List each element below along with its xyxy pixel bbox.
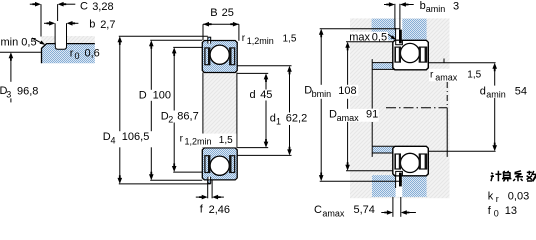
svg-text:D: D: [139, 89, 147, 101]
svg-text:86,7: 86,7: [177, 110, 198, 122]
svg-text:k: k: [488, 190, 494, 202]
svg-text:1,5: 1,5: [283, 34, 297, 45]
svg-text:r: r: [70, 48, 74, 60]
svg-text:0: 0: [75, 51, 80, 61]
svg-text:2,46: 2,46: [209, 204, 230, 216]
svg-text:d: d: [480, 85, 486, 97]
svg-text:91: 91: [366, 108, 378, 120]
svg-text:45: 45: [260, 89, 272, 101]
svg-text:0,03: 0,03: [508, 190, 529, 202]
svg-text:13: 13: [505, 205, 517, 217]
svg-text:amax: amax: [337, 113, 360, 123]
svg-text:5,74: 5,74: [354, 204, 375, 216]
svg-text:0,6: 0,6: [85, 48, 100, 60]
svg-text:106,5: 106,5: [122, 131, 150, 143]
svg-text:amin: amin: [486, 89, 506, 99]
svg-text:96,8: 96,8: [17, 85, 38, 97]
svg-text:d: d: [250, 89, 256, 101]
svg-text:bmin: bmin: [312, 89, 332, 99]
svg-text:b: b: [420, 0, 426, 12]
svg-text:54: 54: [515, 85, 527, 97]
svg-text:d: d: [270, 112, 276, 124]
svg-text:1,2min: 1,2min: [185, 136, 212, 146]
svg-text:3: 3: [453, 0, 459, 12]
svg-text:100: 100: [153, 89, 171, 101]
svg-text:62,2: 62,2: [286, 112, 307, 124]
svg-text:1: 1: [276, 116, 281, 126]
svg-text:b: b: [89, 19, 95, 31]
svg-text:C: C: [314, 204, 322, 216]
svg-text:2: 2: [168, 115, 173, 125]
svg-text:amax: amax: [322, 209, 345, 219]
svg-text:1,5: 1,5: [219, 135, 233, 146]
svg-text:r: r: [496, 194, 499, 204]
svg-text:1,2min: 1,2min: [247, 36, 274, 46]
svg-text:amin: amin: [426, 4, 446, 14]
svg-text:3,28: 3,28: [92, 1, 113, 13]
svg-text:min 0,5: min 0,5: [1, 36, 37, 48]
svg-text:4: 4: [111, 136, 116, 146]
svg-text:108: 108: [338, 85, 356, 97]
svg-text:2,7: 2,7: [100, 19, 115, 31]
svg-text:amax: amax: [435, 73, 458, 83]
svg-text:C: C: [80, 1, 88, 13]
svg-text:B: B: [210, 7, 217, 19]
svg-text:25: 25: [222, 7, 234, 19]
svg-text:0: 0: [494, 208, 499, 218]
svg-text:3: 3: [6, 90, 11, 100]
svg-text:1,5: 1,5: [467, 70, 481, 81]
